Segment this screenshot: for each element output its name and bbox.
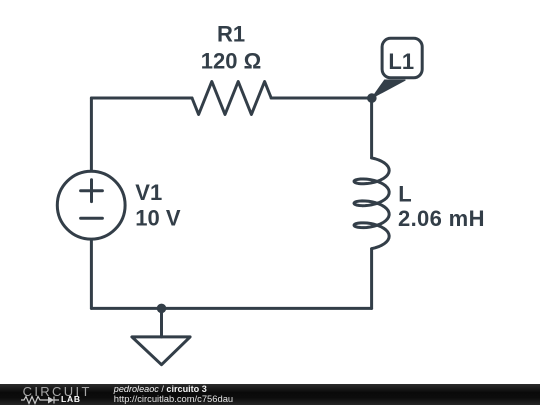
svg-text:R1: R1	[217, 22, 245, 47]
resistor R1	[192, 82, 271, 115]
logo schematic symbols	[20, 395, 95, 405]
svg-text:V1: V1	[135, 180, 162, 205]
inductor L	[354, 158, 389, 249]
svg-text:L1: L1	[388, 49, 414, 74]
logo CIRCUIT	[23, 386, 92, 398]
wire left vertical bottom	[90, 239, 93, 308]
credit line 1	[114, 385, 207, 395]
junction dot node L1	[367, 93, 377, 103]
wire right vertical top	[370, 98, 373, 158]
wire top left segment	[91, 97, 192, 100]
wire left vertical top	[90, 98, 93, 171]
node flag L1	[372, 38, 422, 98]
svg-text:2.06 mH: 2.06 mH	[398, 206, 485, 231]
voltage source V1	[57, 171, 125, 239]
logo LAB	[61, 395, 81, 404]
junction dot ground node	[157, 304, 167, 314]
wire top right segment	[271, 97, 371, 100]
svg-text:120 Ω: 120 Ω	[201, 49, 261, 74]
wire bottom horizontal	[91, 307, 371, 310]
svg-text:L: L	[398, 181, 411, 206]
svg-text:10 V: 10 V	[135, 205, 181, 230]
credit line 2	[114, 394, 233, 404]
footer bar	[0, 384, 540, 405]
ground	[132, 308, 190, 364]
wire right vertical bottom	[370, 249, 373, 309]
